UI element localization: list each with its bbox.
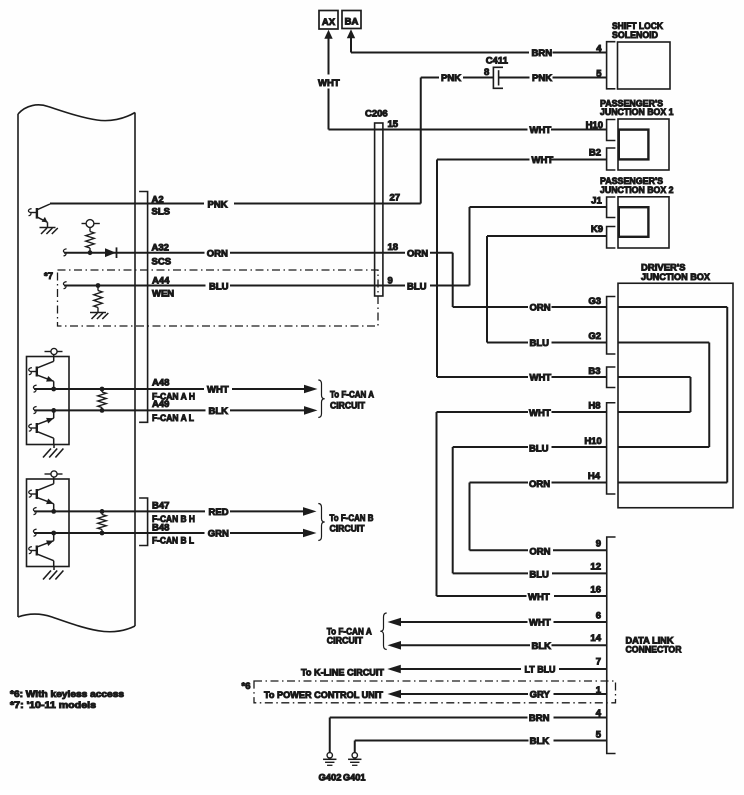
svg-text:SLS: SLS bbox=[152, 207, 170, 218]
svg-text:CIRCUIT: CIRCUIT bbox=[330, 524, 365, 535]
svg-text:BRN: BRN bbox=[529, 713, 550, 724]
svg-text:8: 8 bbox=[484, 67, 489, 78]
svg-text:LT BLU: LT BLU bbox=[525, 665, 556, 676]
svg-text:J1: J1 bbox=[591, 196, 602, 207]
svg-text:G3: G3 bbox=[588, 296, 601, 307]
svg-text:PNK: PNK bbox=[532, 73, 552, 84]
svg-text:H10: H10 bbox=[584, 436, 601, 447]
svg-text:ORN: ORN bbox=[530, 303, 551, 314]
svg-text:RED: RED bbox=[209, 507, 229, 518]
svg-text:BA: BA bbox=[345, 17, 359, 28]
svg-text:9: 9 bbox=[596, 539, 601, 550]
svg-text:B48: B48 bbox=[152, 523, 169, 534]
svg-text:SCS: SCS bbox=[152, 256, 172, 267]
svg-text:BLU: BLU bbox=[530, 338, 550, 349]
svg-text:WHT: WHT bbox=[532, 155, 554, 166]
svg-text:K9: K9 bbox=[591, 224, 603, 235]
svg-text:CIRCUIT: CIRCUIT bbox=[327, 635, 363, 646]
svg-text:GRN: GRN bbox=[208, 529, 229, 540]
svg-text:GRY: GRY bbox=[530, 689, 551, 700]
svg-text:BRN: BRN bbox=[532, 48, 553, 59]
svg-text:7: 7 bbox=[596, 657, 601, 668]
svg-text:H8: H8 bbox=[588, 401, 600, 412]
svg-text:ORN: ORN bbox=[207, 249, 228, 260]
svg-text:BLU: BLU bbox=[209, 282, 229, 293]
svg-text:*6: With keyless access: *6: With keyless access bbox=[10, 689, 124, 700]
svg-text:To K-LINE CIRCUIT: To K-LINE CIRCUIT bbox=[301, 667, 384, 678]
svg-text:BLU: BLU bbox=[529, 569, 549, 580]
svg-text:BLU: BLU bbox=[529, 444, 549, 455]
svg-text:BLK: BLK bbox=[532, 641, 552, 652]
svg-text:14: 14 bbox=[590, 633, 601, 644]
svg-text:*6: *6 bbox=[242, 681, 251, 692]
svg-text:5: 5 bbox=[596, 730, 602, 741]
svg-text:A32: A32 bbox=[152, 242, 169, 253]
svg-text:F-CAN B L: F-CAN B L bbox=[152, 535, 194, 546]
svg-text:G402: G402 bbox=[319, 772, 342, 783]
svg-text:ORN: ORN bbox=[529, 546, 550, 557]
svg-text:WHT: WHT bbox=[529, 618, 551, 629]
svg-text:B2: B2 bbox=[589, 148, 601, 159]
svg-text:JUNCTION BOX 1: JUNCTION BOX 1 bbox=[600, 107, 674, 118]
svg-text:G2: G2 bbox=[588, 331, 601, 342]
svg-text:JUNCTION BOX: JUNCTION BOX bbox=[641, 272, 711, 283]
svg-text:WHT: WHT bbox=[207, 385, 229, 396]
svg-text:To F-CAN A: To F-CAN A bbox=[330, 389, 374, 400]
svg-text:JUNCTION BOX 2: JUNCTION BOX 2 bbox=[600, 185, 674, 196]
svg-text:ORN: ORN bbox=[407, 249, 428, 260]
svg-text:18: 18 bbox=[388, 242, 399, 253]
svg-text:To F-CAN B: To F-CAN B bbox=[330, 513, 374, 524]
svg-text:ORN: ORN bbox=[529, 479, 550, 490]
svg-text:27: 27 bbox=[390, 193, 401, 204]
svg-text:CONNECTOR: CONNECTOR bbox=[626, 644, 682, 655]
svg-text:12: 12 bbox=[590, 562, 601, 573]
svg-text:B47: B47 bbox=[152, 500, 169, 511]
svg-text:CIRCUIT: CIRCUIT bbox=[330, 400, 365, 411]
svg-text:G401: G401 bbox=[343, 772, 366, 783]
svg-text:WHT: WHT bbox=[529, 408, 551, 419]
svg-text:H4: H4 bbox=[588, 471, 601, 482]
svg-text:WHT: WHT bbox=[318, 78, 340, 89]
svg-text:WHT: WHT bbox=[528, 592, 550, 603]
svg-text:6: 6 bbox=[596, 611, 601, 622]
svg-text:C411: C411 bbox=[486, 56, 509, 67]
svg-text:PNK: PNK bbox=[441, 73, 461, 84]
svg-text:AX: AX bbox=[322, 17, 336, 28]
svg-text:WHT: WHT bbox=[530, 373, 552, 384]
svg-text:BLK: BLK bbox=[530, 736, 550, 747]
svg-text:15: 15 bbox=[388, 119, 399, 130]
svg-text:16: 16 bbox=[590, 585, 601, 596]
svg-text:*7: *7 bbox=[44, 271, 53, 282]
svg-text:A44: A44 bbox=[152, 276, 170, 287]
svg-text:A48: A48 bbox=[152, 378, 169, 389]
svg-text:SOLENOID: SOLENOID bbox=[612, 30, 658, 41]
svg-text:BLU: BLU bbox=[407, 282, 427, 293]
svg-text:*7: '10-11 models: *7: '10-11 models bbox=[10, 700, 96, 711]
svg-text:C206: C206 bbox=[365, 109, 388, 120]
svg-text:PNK: PNK bbox=[208, 200, 228, 211]
svg-text:A49: A49 bbox=[152, 399, 169, 410]
svg-text:WEN: WEN bbox=[152, 289, 174, 300]
svg-text:BLK: BLK bbox=[209, 406, 229, 417]
svg-text:A2: A2 bbox=[152, 195, 164, 206]
svg-text:F-CAN A L: F-CAN A L bbox=[152, 413, 194, 424]
svg-text:To POWER CONTROL UNIT: To POWER CONTROL UNIT bbox=[264, 690, 383, 701]
svg-text:WHT: WHT bbox=[530, 125, 552, 136]
svg-text:B3: B3 bbox=[588, 366, 600, 377]
